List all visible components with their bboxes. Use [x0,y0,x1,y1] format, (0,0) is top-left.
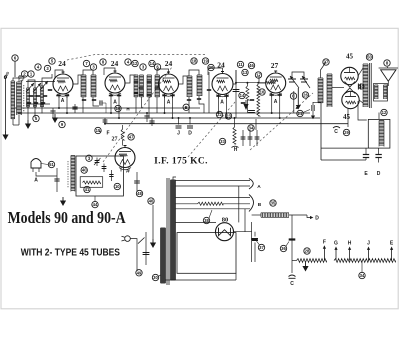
output transformer T5 primary [363,63,368,65]
callout 37 [258,244,264,250]
callout 21 [297,110,303,116]
svg-text:D: D [377,171,381,177]
label osc vertical [67,161,69,188]
svg-text:A: A [61,98,65,104]
callout 44 [92,201,98,207]
wire 30 lead [158,275,160,277]
RF coil L3 [27,87,30,89]
wire C22 down [312,111,314,116]
wire to field box [321,147,368,149]
shield boundary diagonal dashed left [103,67,172,162]
svg-text:34: 34 [360,273,365,278]
callout 46b [148,198,154,204]
capacitor CE [363,154,369,156]
divider resistor Rb [334,259,396,263]
svg-text:19: 19 [203,59,208,64]
callout 45grid [359,84,365,89]
wire speaker apex [387,81,389,87]
wire choke left [252,214,261,216]
wire box bottom 2 [165,279,236,281]
wire 45 cathode [347,109,349,124]
svg-text:14: 14 [150,61,155,66]
capacitor T3 bypass [207,89,211,91]
svg-text:45: 45 [346,53,354,61]
callout B [183,104,189,110]
svg-text:35: 35 [271,201,276,206]
ground bus arrow [54,114,56,118]
antenna coil L2 [17,81,22,83]
callout 34b [359,272,365,278]
IF transformer T1 primary [81,74,86,76]
oscillator grid resistor R4 [121,129,124,140]
wire T4 to grids [332,87,344,89]
oscillator divider R3 [110,170,112,181]
input area wires [26,81,55,83]
tube V7 type 45 [342,91,359,108]
bypass vertical 3 [256,130,258,146]
svg-text:46: 46 [149,199,154,204]
callout 33 [219,138,225,144]
capacitor C cathode [333,127,340,129]
trimmer osc 2 [103,164,105,173]
wire 45 grids chevron 1 [345,82,356,88]
svg-text:I.F. 175 KC.: I.F. 175 KC. [154,157,208,167]
callout 14 [149,60,155,66]
bus wire 1 [15,107,200,109]
svg-text:50: 50 [367,55,372,60]
svg-text:51: 51 [49,162,54,167]
svg-text:44: 44 [93,202,98,207]
wire 37 pointer [257,241,260,245]
svg-text:A: A [167,100,171,106]
callout 48 [136,190,142,196]
tube V6 type 45 [341,67,358,84]
arrow detector down [245,100,247,104]
callout 8b [384,60,390,66]
callout 38 [203,217,209,223]
wire tone caps top [292,72,304,79]
wire V2 plate to T2 [125,75,136,83]
wire T1 drop 1 [82,97,84,113]
filter choke resistor [260,213,262,218]
switch S1 [138,238,145,244]
input drop 1 [27,104,29,120]
capacitor T1 bypass [99,100,101,105]
wire divider vertical [291,215,293,273]
wire T3 drop 3 [208,72,210,113]
svg-text:13: 13 [243,70,248,75]
capacitor CJ [176,125,182,127]
wire fil lead 2a [176,203,198,205]
tone capacitor C21 arm [302,76,310,88]
wire V3 grid cap [157,69,169,75]
callout 3c [140,64,146,70]
interstage transformer T4 secondary [327,73,332,75]
svg-text:F: F [323,239,326,245]
wire HV lead 2 [176,185,251,187]
input drop 3 [41,104,43,114]
capacitor CD2 [187,125,193,127]
callout 16 [259,89,265,95]
callout 29 [343,129,349,135]
svg-text:D: D [315,216,319,222]
svg-text:H: H [126,107,129,112]
svg-text:46: 46 [249,63,254,68]
wire T2 drop 4 [156,97,158,113]
wire bus4 to C cap [347,124,349,127]
brace B [249,195,254,212]
wire V4 legs [218,95,220,114]
wire T3 drop 2 [199,96,204,113]
callout C [290,93,296,99]
wire lamp down [36,172,57,176]
callout 51 [48,161,54,167]
callout 5 [49,58,55,64]
callout 34 [248,125,254,131]
wire fil lead 1 [176,197,251,199]
callout 4b [125,59,131,65]
wire V1 plate to T1 [73,75,83,84]
capacitor grid bias [357,84,359,90]
wire switch lead [145,232,147,265]
callout 40 [81,167,87,173]
svg-text:40: 40 [82,168,87,173]
arrow tap H [349,249,351,261]
wire 36 pointer [286,242,289,247]
wire tuned circuit 2 [42,74,52,86]
wire to E cap [321,159,366,161]
svg-text:24: 24 [111,59,119,68]
IF transformer T1 secondary [91,74,96,76]
wire V5 grid lead [236,82,266,84]
wire CE lead [365,148,367,154]
callout 10 [115,105,121,111]
svg-text:H: H [348,240,352,246]
callout 22 [216,111,222,117]
svg-text:Models 90 and 90-A: Models 90 and 90-A [8,208,126,227]
wire plug lead [130,239,137,271]
trimmer osc 1 [96,158,98,167]
speaker field coil [379,120,384,122]
callout 27b [323,59,329,65]
callout 7 [83,60,89,66]
svg-text:F: F [106,131,109,137]
svg-text:J: J [177,131,180,137]
wire V2 grid cap [104,68,115,75]
IF transformer T2 winding 4 [155,74,160,76]
shield boundary dashed line [67,55,205,61]
callout 36 [280,245,286,251]
wire V5 legs [271,93,273,113]
detector load resistor R6 [246,86,249,100]
wire CD2 [189,118,191,125]
label AET vertical [23,85,25,112]
callout 4 [35,64,41,70]
callout 13 [242,69,248,75]
wire 45 grids chevron 2 [345,88,356,94]
svg-text:16: 16 [260,90,265,95]
bus wire 4 [105,123,348,125]
callout 6 [12,55,18,61]
svg-text:22: 22 [217,112,222,117]
oscillator resistor box [80,177,103,188]
speaker voice coil 1 [375,84,379,86]
callout 12 [132,60,138,66]
svg-text:WITH 2- TYPE 45 TUBES: WITH 2- TYPE 45 TUBES [21,248,121,259]
capacitor CD [375,154,381,156]
svg-text:A: A [274,99,278,105]
power transformer core [166,178,168,285]
wire C22 up [313,102,321,105]
junction dots [58,107,60,109]
capacitor blob 36 [289,238,296,240]
svg-text:20: 20 [209,65,214,70]
wire T1 top [83,70,93,75]
oscillator shield box [76,156,123,196]
tube V5 type 27 [266,73,286,93]
tube V1 type 24 [53,74,73,94]
callout 12b [381,109,387,115]
capacitor C13 [233,89,240,91]
ground osc [62,197,64,201]
svg-text:21: 21 [298,111,303,116]
svg-text:30: 30 [153,275,158,280]
svg-text:J: J [367,240,370,246]
wire right vertical [255,119,257,130]
callout 23 [225,113,231,119]
capacitor bypass 2 [74,104,76,113]
svg-text:B: B [185,105,188,110]
bypass vertical 2 [249,130,251,146]
wire V4 plate [233,70,236,84]
wire tone to ground [297,88,299,105]
trimmer capacitor arrow 2 [33,83,41,92]
arrow tap F [323,247,325,260]
wire plates to T5 [358,68,363,76]
callout 47 [128,134,134,140]
arrow tap G [335,249,337,261]
wire filter1 stub [254,232,256,237]
svg-text:27: 27 [271,61,279,70]
capacitor C48 [136,172,138,192]
IF transformer T2 winding 3 [147,74,152,76]
power unit box [177,233,236,274]
callout 10b [114,183,120,189]
hum resistor R5 [198,202,224,205]
power transformer primary [161,227,166,229]
tone capacitor C20 plates [288,78,296,80]
wire field top [378,113,380,120]
svg-text:C: C [290,281,294,287]
arrow tap E [391,249,393,261]
wire 21 to C22 [303,110,310,113]
divider resistor Ra [297,259,327,263]
ground 46 [152,239,154,243]
callout 20 [208,64,214,70]
svg-text:48: 48 [137,191,142,196]
capacitor bypass 1 [52,108,54,118]
capacitor CH [232,146,239,147]
wire T3 drop 1 [188,97,190,113]
tube V3 type 24 [159,74,179,94]
shield boundary diagonal dashed right [250,93,313,150]
wire V5 grid [259,75,266,83]
callout 3b [90,64,96,70]
svg-text:A: A [34,178,38,184]
svg-text:24: 24 [58,59,66,68]
capacitor C14 [248,110,255,112]
power transformer secondary [171,179,176,181]
audio grid resistor R7 [257,84,260,116]
svg-text:18: 18 [192,59,197,64]
wire CJ [178,118,180,125]
speaker matching box [374,84,388,102]
capacitor blob 37 [251,238,258,240]
junction coupling [235,82,237,84]
coupling network vertical 1 [235,70,237,118]
ground divider [305,263,307,267]
callout 5b [33,115,39,121]
wire V3 legs [164,94,166,113]
bypass vertical 1 [242,130,244,146]
RF coil L5 [41,85,44,87]
capacitor line filter [143,252,150,254]
callout 14b [239,92,245,98]
callout 17 [255,72,261,78]
svg-text:14: 14 [240,93,245,98]
wire fil right drop [244,209,246,232]
callout 30 [152,274,158,280]
svg-text:~: ~ [99,130,102,136]
wire V2 legs [110,93,112,113]
svg-text:29: 29 [344,130,349,135]
wire rect vertical [251,222,253,262]
IF transformer T3 primary [187,75,192,77]
wire to 44 [94,196,96,201]
wire V3 plate to T3 [179,76,190,84]
terminal GND [4,76,6,78]
RF coil L4 [34,87,37,89]
callout 1 [28,71,34,77]
callout 19 [202,58,208,64]
input ground [27,120,29,124]
svg-text:27: 27 [112,137,118,143]
callout 41 [84,186,90,192]
svg-text:D: D [188,131,192,137]
oscillator resistor R2 [83,181,101,184]
svg-text:11: 11 [238,62,243,67]
IF transformer T2 winding 1 [134,74,138,76]
tube V4 type 24 [212,74,233,95]
svg-text:A: A [257,184,261,190]
wire gnd lead [5,78,7,131]
interstage transformer T4 primary [318,77,323,79]
svg-text:10: 10 [116,106,121,111]
svg-text:36: 36 [281,246,286,251]
callout 3d [86,155,92,161]
capacitor left lead [56,168,58,192]
trimmer capacitor arrow 1 [26,83,34,92]
wire Ra left stub [292,260,297,262]
grid stopper coil [266,82,275,84]
callout 6b [154,64,160,70]
svg-text:H: H [234,147,238,153]
input drop 2 [34,104,36,118]
callout 15b [95,127,101,133]
wire T2 drop 1 [135,97,137,113]
callout 46 [248,62,254,68]
wire coil tops [13,78,19,82]
wire speaker to box [358,101,367,120]
svg-text:10: 10 [115,184,120,189]
wire transformer top [173,177,176,180]
capacitor bypass 5 [151,118,153,126]
wire 46 lead [152,205,154,239]
callout 3 [44,65,50,71]
wire pilot to callout [41,164,48,165]
wire V5 plate vertical [293,91,295,113]
bus wire 3 [57,117,320,119]
svg-text:12: 12 [133,61,138,66]
svg-text:33: 33 [220,139,225,144]
wire R4 to tube [122,140,124,146]
arrow D right [307,215,310,218]
wire fil lead 2b [223,203,250,205]
wire 34 stub [361,261,363,273]
wire CD lead [378,148,380,154]
wire 49 stub [136,270,138,271]
callout 11 [237,61,243,67]
IF transformer T2 winding 2 [140,74,144,76]
ground antenna [5,131,7,135]
bus wire 2 [18,112,310,114]
svg-text:28: 28 [305,249,310,254]
wire rect right [233,231,252,233]
svg-text:37: 37 [259,245,264,250]
svg-text:26: 26 [303,93,308,98]
wire fil lead 3 [176,208,251,210]
svg-text:47: 47 [129,135,134,140]
wire tuned circuit [28,80,35,88]
speaker cone [381,70,396,81]
tube V9 type 80 rectifier [216,223,234,241]
svg-text:12: 12 [382,110,387,115]
pilot lamp [31,159,41,169]
svg-text:B: B [258,202,262,208]
tone capacitor C21 plates [300,78,308,80]
arrow tap J [368,249,370,261]
wire rect left [176,221,217,223]
svg-text:G: G [334,240,338,246]
callout 35 [270,200,276,206]
callout 49 [136,270,142,276]
trimmer capacitor arrow 3 [40,81,48,90]
svg-text:C: C [334,129,338,135]
wire T1 drop 2 [93,97,99,106]
svg-text:A: A [113,100,117,106]
capacitor C bottom [289,275,296,277]
AC plug [125,236,131,242]
wire V4 grid cap [208,68,223,75]
svg-text:45: 45 [343,113,351,121]
capacitor C22 [311,105,313,111]
wire T3 tops [189,70,199,76]
shield boundary diagonal dashed middle [188,102,235,157]
capacitor bypass 3 [104,118,106,124]
speaker voice coil 2 [384,84,388,86]
callout 8 [100,59,106,65]
callout 2 [21,71,27,77]
